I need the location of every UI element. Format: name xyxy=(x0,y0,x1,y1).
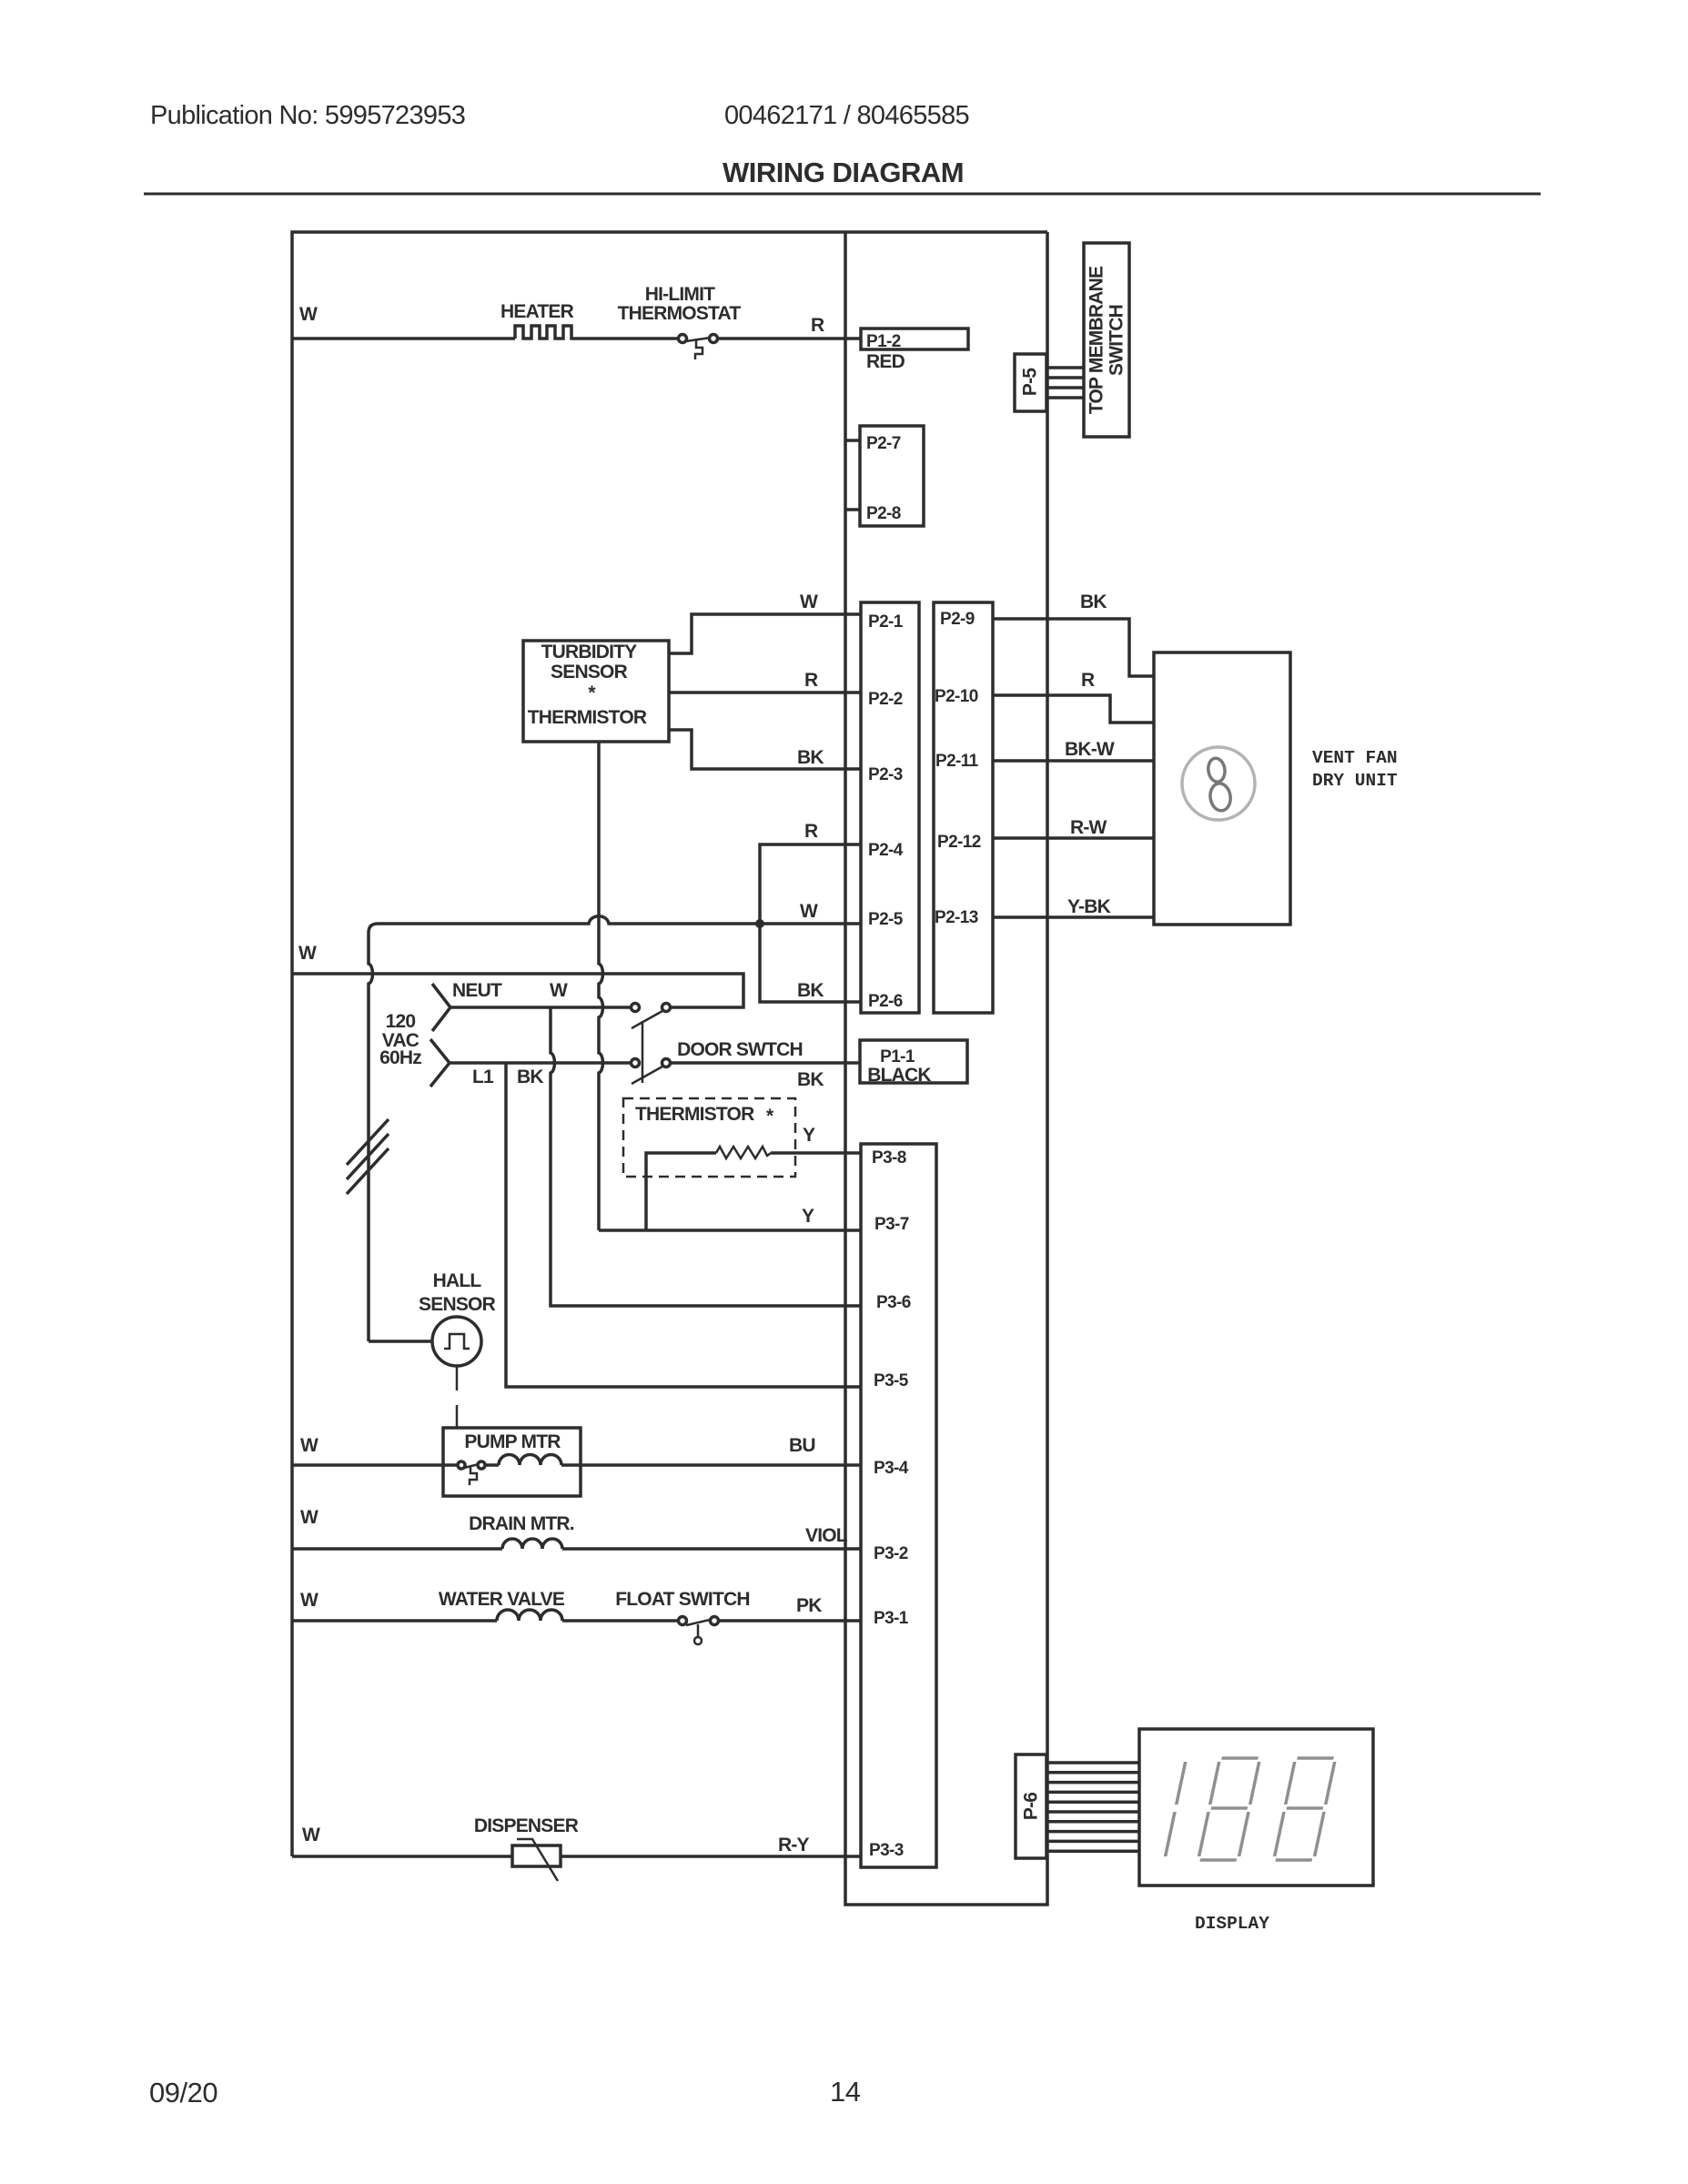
svg-text:VENT FAN: VENT FAN xyxy=(1312,748,1398,768)
power switch NEUT pole xyxy=(632,1004,640,1012)
heater element HEATER xyxy=(515,326,575,339)
svg-text:SWITCH: SWITCH xyxy=(1107,305,1127,376)
wire thermostat to P1-2 R xyxy=(718,337,861,340)
svg-text:THERMISTOR: THERMISTOR xyxy=(635,1104,754,1125)
svg-text:Y: Y xyxy=(803,1125,815,1146)
svg-text:W: W xyxy=(300,1507,318,1528)
connector P2-9 to P2-13 box xyxy=(934,602,993,1013)
svg-text:W: W xyxy=(800,591,818,612)
wire W bus xyxy=(292,974,743,1007)
svg-text:120: 120 xyxy=(386,1011,416,1032)
svg-text:DRAIN MTR.: DRAIN MTR. xyxy=(469,1513,574,1534)
connector P2-7 P2-8 box xyxy=(860,426,924,526)
wire hall sensor lead xyxy=(369,1340,432,1343)
wire pump to P3-4 BU xyxy=(561,1463,861,1467)
thermistor resistor xyxy=(716,1147,771,1158)
float switch xyxy=(679,1617,687,1625)
svg-text:P3-3: P3-3 xyxy=(869,1841,904,1860)
wire P2-11 BK-W to vent fan xyxy=(993,759,1154,763)
svg-text:BK: BK xyxy=(797,1069,824,1090)
wire P2-4 P2-6 branch xyxy=(760,844,861,1002)
svg-text:Y: Y xyxy=(802,1206,814,1227)
svg-text:P-6: P-6 xyxy=(1021,1793,1042,1820)
pump switch xyxy=(458,1461,465,1469)
svg-text:BK: BK xyxy=(1080,591,1107,612)
svg-text:P2-10: P2-10 xyxy=(935,687,978,706)
wire dispenser to P3-3 R-Y xyxy=(561,1855,861,1858)
switch mechanical link xyxy=(642,1021,644,1083)
svg-text:VIOL: VIOL xyxy=(805,1525,848,1546)
wire P2-13 Y-BK to vent fan xyxy=(993,915,1154,919)
svg-text:BK: BK xyxy=(517,1067,543,1087)
wire turbidity BK to P2-3 xyxy=(669,730,861,769)
vent fan motor symbol xyxy=(1182,747,1255,820)
turbidity sensor box xyxy=(523,641,669,742)
seven segment digit 1 xyxy=(1166,1762,1186,1856)
svg-text:SENSOR: SENSOR xyxy=(551,662,628,682)
wire NEUT down to P3-6 xyxy=(551,1007,861,1306)
wire L1 xyxy=(450,1061,632,1065)
wire drain to P3-2 VIOL xyxy=(562,1547,861,1551)
door switch xyxy=(632,1059,640,1067)
svg-text:P2-11: P2-11 xyxy=(935,752,979,771)
svg-text:W: W xyxy=(800,901,818,922)
svg-text:BLACK: BLACK xyxy=(867,1065,931,1086)
svg-text:09/20: 09/20 xyxy=(149,2077,217,2108)
connector P1-2 xyxy=(861,329,968,349)
svg-text:W: W xyxy=(300,1435,318,1456)
supply chevron NEUT xyxy=(432,984,450,1031)
connector P-5 xyxy=(1015,354,1046,411)
svg-text:P2-5: P2-5 xyxy=(868,910,904,929)
wire P2-10 R to vent fan xyxy=(993,695,1154,723)
svg-text:BK: BK xyxy=(797,747,824,768)
supply chevron L1 xyxy=(430,1039,450,1087)
svg-text:P2-2: P2-2 xyxy=(868,690,903,709)
svg-text:HALL: HALL xyxy=(433,1270,482,1291)
wire L1 down to P3-5 xyxy=(506,1063,861,1387)
svg-text:RED: RED xyxy=(866,351,905,372)
wire to P3-7 Y xyxy=(599,1228,861,1232)
svg-text:P2-9: P2-9 xyxy=(940,610,975,629)
svg-text:R: R xyxy=(1081,670,1095,691)
connector P1-1 xyxy=(860,1040,967,1083)
pin stub P2-8 xyxy=(845,508,860,511)
svg-text:P2-8: P2-8 xyxy=(866,504,901,523)
wire turbidity sensor down lead to P3-7 xyxy=(599,742,603,1230)
thermistor dashed box xyxy=(623,1098,795,1177)
wire P2-12 R-W to vent fan xyxy=(993,836,1154,840)
svg-text:HEATER: HEATER xyxy=(500,301,574,322)
wire turbidity R to P2-2 xyxy=(669,691,861,694)
seven segment digit 8 (second) xyxy=(1274,1758,1336,1860)
svg-text:00462171 / 80465585: 00462171 / 80465585 xyxy=(724,101,969,130)
hatch marks xyxy=(347,1119,389,1194)
seven segment digit 8 (first) xyxy=(1198,1758,1260,1860)
svg-text:DOOR SWTCH: DOOR SWTCH xyxy=(677,1039,803,1060)
svg-text:60Hz: 60Hz xyxy=(379,1047,421,1068)
wire heater to thermostat xyxy=(575,337,678,340)
svg-text:P2-13: P2-13 xyxy=(935,908,978,927)
svg-text:P2-1: P2-1 xyxy=(868,612,904,632)
svg-text:Publication No: 5995723953: Publication No: 5995723953 xyxy=(150,101,465,130)
svg-text:DRY UNIT: DRY UNIT xyxy=(1312,771,1398,791)
svg-text:THERMOSTAT: THERMOSTAT xyxy=(618,303,742,324)
svg-text:TOP MEMBRANE: TOP MEMBRANE xyxy=(1087,266,1107,414)
svg-text:P3-8: P3-8 xyxy=(872,1148,906,1168)
svg-text:DISPENSER: DISPENSER xyxy=(474,1815,579,1836)
display bus wires xyxy=(1046,1761,1139,1764)
wire heater line W segment xyxy=(292,337,515,340)
drain motor coil xyxy=(502,1539,562,1549)
title rule xyxy=(144,193,1541,196)
svg-text:BK: BK xyxy=(797,980,824,1001)
wire P2-9 BK to vent fan xyxy=(993,619,1154,676)
svg-text:R-Y: R-Y xyxy=(778,1835,810,1855)
wire W to water valve xyxy=(292,1619,497,1623)
pump coil xyxy=(486,1455,561,1466)
svg-text:P2-3: P2-3 xyxy=(868,765,903,784)
svg-text:P3-7: P3-7 xyxy=(874,1215,909,1234)
svg-text:BK-W: BK-W xyxy=(1065,739,1115,760)
wire NEUT xyxy=(450,1006,632,1009)
wire W to P2-5 and down to hall sensor xyxy=(369,916,861,1341)
top membrane switch box xyxy=(1084,243,1129,437)
pump motor box xyxy=(443,1428,581,1496)
svg-text:P2-12: P2-12 xyxy=(937,833,981,852)
svg-text:P3-2: P3-2 xyxy=(874,1544,908,1563)
svg-text:WATER VALVE: WATER VALVE xyxy=(439,1589,565,1610)
svg-text:DISPLAY: DISPLAY xyxy=(1195,1914,1269,1934)
svg-text:NEUT: NEUT xyxy=(452,980,502,1001)
svg-text:R: R xyxy=(811,315,824,336)
svg-text:R: R xyxy=(804,821,818,842)
svg-text:W: W xyxy=(300,1590,318,1611)
wire W to pump xyxy=(292,1463,458,1467)
controller board outline xyxy=(845,232,1047,1905)
svg-text:W: W xyxy=(299,304,318,325)
svg-text:P2-4: P2-4 xyxy=(868,841,904,860)
svg-text:BU: BU xyxy=(789,1435,815,1456)
pin stub P2-7 xyxy=(845,439,860,442)
svg-text:P1-2: P1-2 xyxy=(866,332,901,351)
hall sensor dashed link xyxy=(456,1366,459,1428)
svg-text:Y-BK: Y-BK xyxy=(1067,896,1111,917)
svg-text:14: 14 xyxy=(830,2076,861,2108)
svg-text:W: W xyxy=(298,943,317,964)
display box xyxy=(1139,1729,1373,1886)
connector P3 box xyxy=(861,1144,936,1867)
svg-text:W: W xyxy=(550,980,568,1001)
connector P-6 xyxy=(1016,1754,1046,1858)
wire door switch to P1-1 BK xyxy=(670,1061,860,1065)
wire water valve to float switch xyxy=(562,1619,679,1623)
svg-text:PK: PK xyxy=(796,1595,822,1616)
svg-text:P3-4: P3-4 xyxy=(874,1459,909,1478)
wire thermistor to P3-8 Y xyxy=(771,1151,861,1155)
svg-text:SENSOR: SENSOR xyxy=(419,1294,496,1315)
water valve coil xyxy=(497,1610,562,1621)
svg-text:P2-6: P2-6 xyxy=(868,992,903,1011)
svg-text:P-5: P-5 xyxy=(1020,368,1041,396)
vent fan dry unit box xyxy=(1154,652,1290,925)
wire W to drain motor xyxy=(292,1547,502,1551)
wire W to dispenser xyxy=(292,1855,512,1858)
membrane bus wires xyxy=(1046,366,1084,369)
wire turbidity W to P2-1 xyxy=(669,614,861,653)
svg-text:P1-1: P1-1 xyxy=(880,1047,915,1067)
wire float switch to P3-1 PK xyxy=(718,1619,861,1623)
svg-text:FLOAT SWITCH: FLOAT SWITCH xyxy=(615,1589,749,1610)
svg-text:PUMP MTR: PUMP MTR xyxy=(464,1431,561,1452)
svg-text:THERMISTOR: THERMISTOR xyxy=(528,707,647,728)
svg-text:P3-1: P3-1 xyxy=(874,1609,909,1628)
svg-text:P2-7: P2-7 xyxy=(866,434,901,453)
thermistor left lead xyxy=(646,1153,716,1230)
svg-text:HI-LIMIT: HI-LIMIT xyxy=(645,284,715,305)
svg-text:L1: L1 xyxy=(472,1067,494,1087)
svg-text:W: W xyxy=(302,1825,320,1845)
svg-text:WIRING DIAGRAM: WIRING DIAGRAM xyxy=(723,157,964,188)
dispenser element xyxy=(512,1845,561,1866)
hall sensor xyxy=(432,1317,481,1366)
hi-limit thermostat switch xyxy=(679,335,687,343)
wire outer frame (left W bus and top edge) xyxy=(292,232,1047,1856)
svg-text:TURBIDITY: TURBIDITY xyxy=(541,642,638,662)
svg-text:R-W: R-W xyxy=(1070,817,1107,838)
svg-text:P3-6: P3-6 xyxy=(876,1293,911,1312)
connector P2-1 to P2-6 box xyxy=(861,602,919,1013)
junction dot xyxy=(755,919,764,928)
svg-text:R: R xyxy=(804,670,818,691)
svg-text:P3-5: P3-5 xyxy=(874,1371,909,1390)
